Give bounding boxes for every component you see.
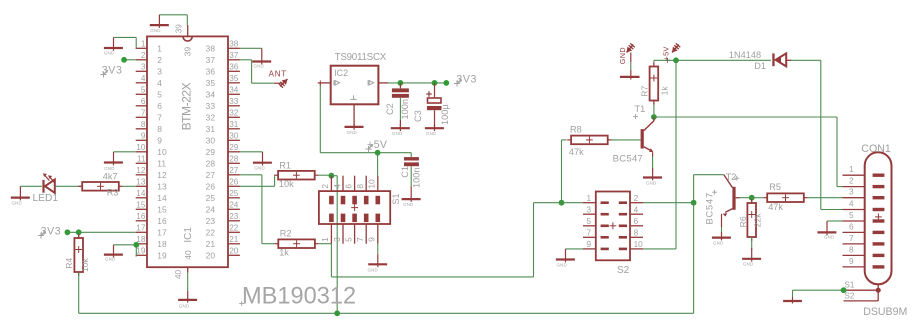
IC1 pin 24 stub+numbers — [206, 201, 240, 215]
S2 pin 7 stub — [583, 229, 596, 238]
svg-text:4k7: 4k7 — [103, 172, 118, 182]
svg-text:30: 30 — [206, 135, 216, 145]
svg-text:1: 1 — [849, 165, 854, 174]
svg-text:15: 15 — [136, 201, 146, 210]
svg-text:38: 38 — [229, 40, 239, 49]
S2 pin 8 stub — [630, 229, 643, 238]
svg-text:28: 28 — [206, 158, 216, 168]
CON1 pin 9 stub — [843, 257, 865, 267]
svg-text:31: 31 — [206, 124, 216, 134]
svg-text:R7: R7 — [640, 85, 650, 96]
svg-text:BTM-22X: BTM-22X — [179, 82, 193, 130]
T1 value BC547 — [613, 154, 644, 165]
CON1 pin 6 stub — [843, 222, 865, 232]
IC1 pin 31 stub+numbers — [206, 120, 240, 134]
S1 pin 1 stub — [320, 224, 331, 244]
svg-text:4: 4 — [141, 74, 146, 83]
R7 label — [640, 85, 650, 96]
R2 label — [280, 229, 292, 239]
supply 3V3 label B — [38, 226, 61, 239]
ground G5 — [104, 245, 123, 262]
ANT pin arrow — [279, 79, 288, 88]
svg-text:S2: S2 — [844, 291, 854, 300]
svg-text:+5V: +5V — [662, 46, 671, 60]
svg-text:1: 1 — [320, 237, 330, 242]
IC1 pin 38 stub+numbers — [206, 40, 240, 54]
junction dot T1 collector — [651, 114, 657, 120]
svg-text:10k: 10k — [80, 257, 90, 272]
wire T2 emitter to GND — [721, 227, 723, 234]
svg-text:23: 23 — [206, 216, 216, 226]
svg-text:14: 14 — [136, 189, 146, 198]
wire +5V down to S2 pin10 — [675, 60, 677, 249]
wire pin39 to GND — [159, 15, 187, 26]
wire +5V to S1 pin10 — [377, 153, 379, 176]
svg-text:28: 28 — [229, 155, 239, 164]
svg-text:4: 4 — [332, 184, 342, 189]
IC1 pin 33 stub+numbers — [206, 97, 240, 111]
ground G17 — [742, 248, 761, 267]
wire T1 collector to CON1 pin2 — [654, 117, 843, 187]
svg-text:100n: 100n — [400, 99, 410, 119]
svg-text:7: 7 — [355, 237, 365, 242]
svg-text:21: 21 — [206, 239, 216, 249]
svg-text:GND: GND — [426, 131, 437, 136]
svg-text:R4: R4 — [64, 258, 74, 269]
svg-text:5: 5 — [586, 217, 591, 226]
svg-text:9: 9 — [849, 257, 854, 266]
svg-text:GND: GND — [368, 268, 379, 273]
junction dot 3V3 end — [443, 80, 449, 86]
svg-text:9: 9 — [367, 237, 377, 242]
C1 value 100n — [412, 168, 422, 188]
svg-text:8: 8 — [849, 245, 854, 254]
svg-text:DSUB9M: DSUB9M — [863, 306, 907, 318]
R1 value 10k — [279, 179, 294, 189]
svg-text:37: 37 — [206, 55, 216, 65]
wire R2 to S1 pin1 — [319, 243, 332, 245]
svg-text:6: 6 — [634, 217, 639, 226]
wire R8 base wire — [607, 139, 640, 141]
junction dot +5V rail — [375, 150, 381, 156]
svg-text:T1: T1 — [635, 104, 646, 114]
svg-text:15: 15 — [157, 204, 167, 214]
svg-text:16: 16 — [136, 212, 146, 221]
svg-text:D1: D1 — [754, 61, 766, 71]
wire pin18 pin19 to GND — [114, 245, 137, 256]
supply GND arrow — [618, 43, 635, 64]
CON1 value DSUB9M — [863, 306, 907, 318]
IC1 pin 25 stub+numbers — [206, 189, 240, 203]
voltage regulator IC2 body — [331, 66, 379, 105]
svg-text:LED1: LED1 — [33, 193, 59, 204]
svg-text:20: 20 — [229, 247, 239, 256]
svg-text:3: 3 — [849, 188, 854, 197]
ground G6 — [178, 291, 197, 309]
svg-text:24: 24 — [229, 201, 239, 210]
svg-text:8: 8 — [157, 124, 162, 134]
S2 pin 1 stub — [583, 194, 596, 203]
svg-text:27: 27 — [229, 166, 239, 175]
wire +5V to D1 — [676, 59, 771, 61]
svg-text:C1: C1 — [400, 166, 410, 178]
svg-text:S1: S1 — [844, 281, 854, 290]
svg-text:22: 22 — [206, 227, 216, 237]
wire pin27 to R2 — [240, 175, 274, 244]
S2 pin 4 stub — [630, 205, 643, 214]
IC1 pin 28 stub+numbers — [206, 155, 240, 169]
S2 pin 3 stub — [583, 205, 596, 214]
wire +5V node — [654, 59, 676, 61]
wire pin1 to GND — [114, 37, 137, 48]
IC1 pin 32 stub+numbers — [206, 109, 240, 123]
IC1 pin 9 stub+numbers — [136, 132, 163, 146]
ground G9 — [368, 254, 388, 273]
wire GND supply — [630, 53, 632, 71]
IC1 pin 34 stub+numbers — [206, 86, 240, 100]
svg-text:1k: 1k — [659, 86, 669, 96]
IC1 pin 20 stub+numbers — [206, 247, 240, 261]
svg-text:7: 7 — [849, 234, 854, 243]
svg-text:21: 21 — [229, 235, 239, 244]
R6 value 22k — [753, 213, 763, 228]
IC1 pin 17 stub+numbers — [136, 224, 167, 238]
C2 label — [385, 103, 395, 115]
IC1 pin 5 stub+numbers — [136, 86, 163, 100]
junction dot +5V — [673, 57, 679, 63]
R4 label — [64, 258, 74, 269]
junction dot T2 base — [749, 195, 755, 201]
wire T1 emitter to GND — [652, 157, 654, 171]
svg-text:17: 17 — [157, 227, 167, 237]
svg-text:3: 3 — [586, 205, 591, 214]
svg-text:R1: R1 — [279, 160, 291, 170]
svg-text:4: 4 — [634, 205, 639, 214]
frame title MB190312 — [239, 284, 356, 310]
IC1 pin 40 stub+numbers — [174, 250, 193, 279]
svg-text:10: 10 — [157, 147, 167, 157]
svg-text:C3: C3 — [413, 110, 423, 122]
D1 part name 1N4148 — [729, 50, 761, 60]
wire S1 pin1 to S2 net — [331, 203, 533, 277]
IC1 pin 16 stub+numbers — [136, 212, 167, 226]
svg-text:GND: GND — [12, 201, 23, 206]
svg-text:3: 3 — [157, 66, 162, 76]
wire CON1 pin5 to GND — [827, 220, 843, 222]
ground G11 — [345, 124, 364, 135]
svg-text:13: 13 — [136, 178, 146, 187]
IC2 gnd pin — [353, 104, 355, 127]
svg-text:19: 19 — [136, 247, 146, 256]
junction dot 3V3 A — [65, 229, 71, 235]
R2 value 1k — [279, 248, 289, 258]
ground G1 — [150, 15, 169, 33]
supply +5V label rail — [366, 139, 388, 152]
IC1 pin 6 stub+numbers — [136, 97, 163, 111]
svg-text:33: 33 — [229, 97, 239, 106]
wire IC2 out to 3V3 — [388, 82, 446, 84]
IC1 pin 36 stub+numbers — [206, 63, 240, 77]
CON1 pin 1 stub — [843, 165, 865, 175]
svg-text:GND: GND — [254, 166, 265, 171]
wire R4 to bottom bus — [78, 272, 80, 313]
wire pin26 to R1 — [240, 175, 275, 186]
svg-text:TS9011SCX: TS9011SCX — [335, 52, 387, 63]
junction dot bus — [334, 310, 340, 316]
connector S1 body+pads — [319, 191, 390, 224]
wire T2 collector riser — [694, 175, 724, 203]
svg-text:7: 7 — [586, 229, 591, 238]
IC1 pin 19 stub+numbers — [136, 247, 167, 261]
IC1 pin 1 stub+numbers — [136, 40, 163, 54]
CON1 pin 4 stub — [843, 200, 865, 210]
R8 value 47k — [569, 147, 584, 157]
IC2 part name TS9011SCX — [335, 52, 387, 63]
svg-text:39: 39 — [183, 47, 193, 57]
svg-text:14: 14 — [157, 193, 167, 203]
S1 refdes — [391, 193, 401, 204]
wire T2 base to R5 — [752, 197, 764, 199]
S1 pin 6 stub — [343, 176, 354, 191]
svg-text:35: 35 — [206, 78, 216, 88]
ground G13 — [425, 124, 444, 136]
wire bottom bus — [79, 312, 694, 314]
svg-text:24: 24 — [206, 204, 216, 214]
wire junction left down — [534, 202, 562, 204]
ground G15 — [556, 249, 575, 268]
svg-text:GND: GND — [104, 51, 115, 56]
CON1 pin 5 stub — [843, 211, 865, 221]
svg-text:100n: 100n — [412, 168, 422, 188]
svg-text:18: 18 — [157, 239, 167, 249]
wire S2 pin2 to T2 — [643, 202, 694, 204]
CON1 pin 8 stub — [843, 245, 865, 255]
wire R3 to pin13 — [123, 185, 136, 187]
IC1 pin 11 stub+numbers — [136, 155, 167, 169]
svg-text:22k: 22k — [753, 213, 763, 228]
wire 3V3 to pin2 — [124, 59, 136, 61]
svg-text:MB190312: MB190312 — [242, 284, 356, 310]
wire 3V3 rail to pin17 — [67, 231, 135, 233]
svg-text:29: 29 — [206, 147, 216, 157]
ground G2 — [104, 37, 123, 55]
svg-text:3: 3 — [141, 63, 146, 72]
svg-text:GND: GND — [646, 181, 657, 186]
svg-text:7: 7 — [141, 109, 146, 118]
S1 pin 7 stub — [355, 224, 366, 244]
CON1 pin 2 stub — [843, 177, 865, 187]
S2 refdes — [617, 265, 630, 276]
R5 value 47k — [768, 202, 783, 212]
svg-text:BC547: BC547 — [613, 154, 644, 165]
resistor R6 — [747, 198, 756, 241]
IC1 pin 27 stub+numbers — [206, 166, 240, 180]
IC1 pin 29 stub+numbers — [206, 143, 240, 157]
R3 label — [107, 188, 119, 198]
junction dot S2 pin2 — [691, 200, 697, 206]
svg-text:12: 12 — [136, 166, 146, 175]
T2 label — [726, 172, 740, 182]
CON1 pin 7 stub — [843, 234, 865, 244]
IC1 refdes IC1 — [183, 227, 194, 243]
wire R1 to S1 pin2 junction — [319, 174, 332, 176]
svg-text:2: 2 — [634, 194, 639, 203]
R3 value 4k7 — [103, 172, 118, 182]
IC2 input pin stub — [318, 80, 331, 85]
CON1 shield pins S1 S2 — [844, 281, 881, 301]
junction dot R4 top — [76, 229, 82, 235]
S2 pin 6 stub — [630, 217, 643, 226]
svg-text:IC2: IC2 — [334, 68, 348, 78]
svg-text:38: 38 — [206, 43, 216, 53]
wire junction down to bus — [693, 203, 695, 314]
svg-text:GND: GND — [105, 257, 116, 262]
svg-text:4: 4 — [157, 78, 162, 88]
IC IC1 BTM-22X body outline — [147, 36, 228, 267]
wire pin29 to GND — [240, 151, 263, 153]
resistor R2 — [274, 239, 318, 248]
wire shield to GND — [793, 290, 844, 297]
ground G8 — [253, 152, 272, 171]
R7 value 1k — [659, 86, 669, 96]
IC1 pin 37 stub+numbers — [206, 51, 240, 65]
svg-text:5: 5 — [141, 86, 146, 95]
ground G-top — [620, 70, 640, 80]
IC1 pin 18 stub+numbers — [136, 235, 167, 249]
S2 pin 10 stub — [630, 240, 643, 249]
resistor R4 — [74, 232, 83, 276]
wire junction to S2 pin1 — [562, 202, 584, 204]
IC1 pin 2 stub+numbers — [136, 51, 163, 65]
capacitor C1 — [404, 153, 419, 187]
wire S1 pin9 to GND — [377, 244, 379, 255]
supply 3V3 label A — [101, 65, 123, 78]
svg-text:13: 13 — [157, 181, 167, 191]
D1 label — [754, 61, 766, 71]
svg-text:40: 40 — [174, 269, 183, 279]
IC1 pin 30 stub+numbers — [206, 132, 240, 146]
svg-text:GND: GND — [743, 262, 754, 267]
svg-text:47k: 47k — [768, 202, 783, 212]
IC2 output pin stub — [378, 82, 388, 84]
wire R5 to CON1 pin3 — [808, 197, 843, 199]
svg-text:GND: GND — [824, 235, 835, 240]
capacitor C3 — [426, 83, 441, 128]
svg-text:5: 5 — [343, 237, 353, 242]
svg-text:GND: GND — [713, 241, 724, 246]
wire R8 to S2 pin1 junction — [562, 140, 567, 203]
svg-text:10k: 10k — [279, 179, 294, 189]
junction dot S1 pin2 — [329, 173, 335, 179]
svg-text:19: 19 — [157, 250, 167, 260]
wire S2 pin9 to GND — [566, 248, 584, 250]
svg-text:39: 39 — [175, 24, 184, 34]
S2 pin 5 stub — [583, 217, 596, 226]
svg-text:T2: T2 — [726, 172, 737, 182]
svg-text:3: 3 — [332, 237, 342, 242]
svg-text:36: 36 — [229, 63, 239, 72]
junction dot pin18 — [133, 242, 139, 248]
IC1 pin 4 stub+numbers — [136, 74, 163, 88]
IC1 pin 3 stub+numbers — [136, 63, 163, 77]
svg-text:GND: GND — [150, 28, 161, 33]
S2 pin 9 stub — [583, 240, 596, 249]
ground G12 — [391, 124, 410, 136]
IC1 pin 39 stub+numbers — [175, 24, 193, 56]
ground G16 — [712, 232, 731, 246]
IC1 pin 22 stub+numbers — [206, 224, 240, 238]
wire R6 to GND — [751, 237, 753, 250]
S1 pin 10 stub — [367, 176, 378, 191]
svg-text:1: 1 — [586, 194, 591, 203]
transistor T1 BC547 — [641, 117, 654, 157]
svg-text:ANT: ANT — [269, 70, 287, 79]
IC1 pin 10 stub+numbers — [136, 143, 167, 157]
svg-text:BC547: BC547 — [704, 192, 714, 224]
wire GND to LED1 — [20, 185, 42, 187]
svg-text:9: 9 — [586, 240, 591, 249]
svg-text:6: 6 — [343, 184, 353, 189]
svg-text:R2: R2 — [280, 229, 292, 239]
svg-text:6: 6 — [157, 101, 162, 111]
IC1 pin 21 stub+numbers — [206, 235, 240, 249]
svg-text:23: 23 — [229, 212, 239, 221]
svg-text:9: 9 — [141, 132, 146, 141]
svg-text:40: 40 — [183, 250, 193, 260]
svg-text:5: 5 — [849, 211, 854, 220]
junction dot C2 top — [398, 80, 404, 86]
junction dot pin2 — [121, 57, 127, 63]
resistor R1 — [274, 171, 318, 180]
svg-text:10: 10 — [367, 179, 377, 189]
svg-text:7: 7 — [157, 112, 162, 122]
resistor R3 — [78, 182, 122, 191]
junction dot C3 top — [432, 80, 438, 86]
IC1 pin 14 stub+numbers — [136, 189, 167, 203]
T1 label — [633, 104, 645, 119]
svg-text:10: 10 — [136, 143, 146, 152]
ground G19 — [783, 297, 802, 304]
svg-text:35: 35 — [229, 74, 239, 83]
IC1 pin 23 stub+numbers — [206, 212, 240, 226]
CON1 pin 3 stub — [843, 188, 865, 198]
svg-text:5: 5 — [157, 89, 162, 99]
svg-text:S1: S1 — [391, 193, 401, 204]
resistor R7 — [650, 60, 659, 104]
svg-text:CON1: CON1 — [861, 143, 891, 155]
C3 label — [413, 110, 423, 122]
R5 label — [769, 182, 781, 192]
R1 label — [279, 160, 291, 170]
IC1 part name BTM-22X — [179, 82, 193, 130]
svg-text:11: 11 — [157, 158, 166, 168]
wire pin10 to GND — [114, 151, 136, 153]
IC1 pin 8 stub+numbers — [136, 120, 163, 134]
ground G4 — [11, 186, 30, 205]
svg-text:2: 2 — [141, 51, 146, 60]
wire D1 to CON1 pin4 — [791, 60, 843, 209]
diode D1 1N4148 — [772, 53, 791, 66]
node ANT label — [269, 70, 287, 79]
S1 pin 2 stub — [320, 176, 331, 191]
svg-text:1: 1 — [141, 40, 146, 49]
svg-text:GND: GND — [618, 47, 627, 64]
supply +5V arrow — [662, 43, 681, 62]
S1 pin 9 stub — [367, 224, 378, 244]
CON1 refdes — [861, 143, 891, 155]
svg-text:GND: GND — [347, 130, 358, 135]
S1 pin 8 stub — [355, 176, 366, 191]
